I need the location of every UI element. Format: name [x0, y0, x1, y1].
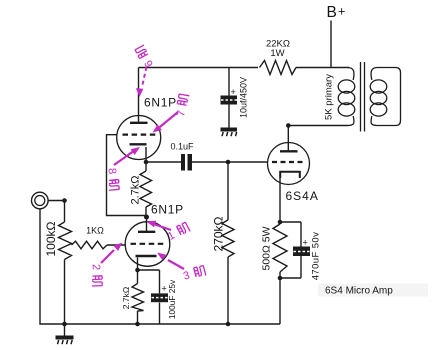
wire plate lead V1 — [138, 68, 140, 123]
node A (V1 cathode / coupling cap) — [144, 160, 149, 165]
tube 6S4A grid — [272, 161, 305, 163]
capacitor 10uf/450V — [221, 96, 238, 105]
annotation pin8 — [106, 147, 140, 190]
tube V1 6N1P envelope — [117, 116, 161, 160]
wire decoupling branch — [228, 68, 230, 128]
svg-text:6S4A: 6S4A — [286, 189, 319, 203]
annotation pin2 — [90, 243, 123, 287]
annotation pin6 — [135, 44, 156, 97]
svg-text:B: B — [327, 4, 337, 21]
wire 6S4A plate to transformer — [288, 126, 348, 152]
ground (main) — [56, 336, 74, 345]
wire node A to coupling cap — [146, 161, 181, 163]
node V2 cathode junction — [135, 268, 140, 273]
tube V2 cathode — [136, 255, 157, 257]
transformer primary winding — [338, 68, 355, 126]
svg-text:+: + — [338, 5, 345, 19]
resistor 100k pot — [59, 222, 72, 260]
svg-text:8: 8 — [106, 168, 118, 175]
resistor R 22K — [260, 61, 297, 75]
label 6S4 Micro Amp — [318, 284, 428, 297]
wire top rail left — [139, 67, 259, 69]
capacitor 100uF 25v — [151, 293, 168, 302]
svg-text:6S4 Micro Amp: 6S4 Micro Amp — [325, 286, 393, 297]
wire ground stub — [64, 324, 66, 336]
wire top rail right — [296, 67, 349, 69]
tube 6S4A plate — [280, 150, 298, 152]
resistor 500 ohm — [273, 224, 287, 272]
svg-text:5K primary: 5K primary — [324, 74, 335, 120]
input jack — [32, 192, 49, 209]
svg-text:10uf/450V: 10uf/450V — [239, 77, 249, 118]
tube V1 cathode — [130, 143, 147, 145]
wire 2.7k bottom — [137, 311, 139, 324]
tube 6S4A cathode — [280, 172, 300, 178]
resistor 270k — [222, 220, 234, 257]
svg-text:+: + — [303, 238, 308, 248]
annotation pin3 — [157, 253, 206, 283]
wire 1k to grid — [107, 244, 126, 246]
resistor 2.7k lower — [132, 284, 144, 312]
capacitor 470uF 50v — [293, 247, 310, 257]
svg-text:0.1uF: 0.1uF — [171, 142, 195, 152]
node V2 plate / V1 grid junction — [144, 215, 149, 220]
svg-text:1KΩ: 1KΩ — [86, 226, 104, 236]
wire plate lead V2 — [146, 216, 148, 232]
wire 470uF branch — [280, 222, 301, 278]
wire 500ohm leads — [279, 222, 281, 324]
resistor 2.7k upper — [140, 171, 152, 207]
tube V1 grid — [123, 134, 157, 136]
wire grid V1 to plate V2 — [107, 135, 147, 216]
wire jack to pot — [48, 201, 65, 223]
tube V2 6N1P envelope — [125, 222, 170, 267]
svg-text:2.7kΩ: 2.7kΩ — [130, 175, 142, 204]
node B (coupling cap / 270k / 6S4A grid) — [226, 160, 231, 165]
wire pot bottom — [64, 260, 66, 325]
node 6S4A cathode junction bottom — [278, 276, 283, 281]
wire 6S4A cathode lead — [279, 178, 281, 222]
svg-text:6N1P: 6N1P — [151, 203, 184, 217]
wire bypass cap branch — [138, 270, 160, 324]
svg-text:2: 2 — [90, 264, 102, 271]
wire coupling cap to 6S4A grid — [192, 161, 268, 163]
wire jack sleeve down + ground bus — [40, 209, 280, 324]
node pot bottom on ground bus — [62, 322, 67, 327]
wire B+ drop — [330, 21, 332, 68]
svg-text:+: + — [231, 87, 236, 97]
node 270k on ground bus — [226, 322, 231, 327]
transformer secondary winding — [370, 68, 400, 126]
ground (decoupling) — [221, 128, 238, 137]
annotation pin1 — [147, 221, 191, 243]
svg-text:2.7kΩ: 2.7kΩ — [121, 287, 131, 309]
svg-text:500Ω 5W: 500Ω 5W — [260, 226, 272, 270]
tube V1 plate — [130, 122, 148, 124]
transformer core — [361, 62, 365, 132]
svg-text:100kΩ: 100kΩ — [44, 221, 58, 256]
svg-text:100uF 25v: 100uF 25v — [167, 279, 177, 319]
tube 6S4A envelope — [268, 143, 310, 185]
svg-text:1W: 1W — [270, 48, 284, 59]
wire cathode V1 — [145, 147, 147, 171]
annotation pin7 — [153, 94, 191, 133]
wire 2.7k top to plate node — [145, 207, 147, 216]
resistor 1K — [72, 241, 108, 249]
tube V2 plate — [138, 231, 155, 233]
svg-text:270kΩ: 270kΩ — [211, 216, 225, 251]
svg-text:+: + — [162, 284, 167, 294]
svg-text:470uF 50v: 470uF 50v — [311, 232, 322, 281]
node 6S4A cathode junction top — [278, 220, 283, 225]
wire 270k column — [227, 162, 229, 324]
node 6S4A plate / transformer primary — [286, 123, 291, 128]
wire cathode V2 — [137, 258, 139, 284]
capacitor 0.1uF — [181, 154, 192, 171]
svg-text:6N1P: 6N1P — [144, 96, 177, 110]
tube V2 grid — [131, 243, 165, 245]
node input/pot junction — [62, 198, 67, 203]
node cathode R on ground bus — [135, 322, 140, 327]
